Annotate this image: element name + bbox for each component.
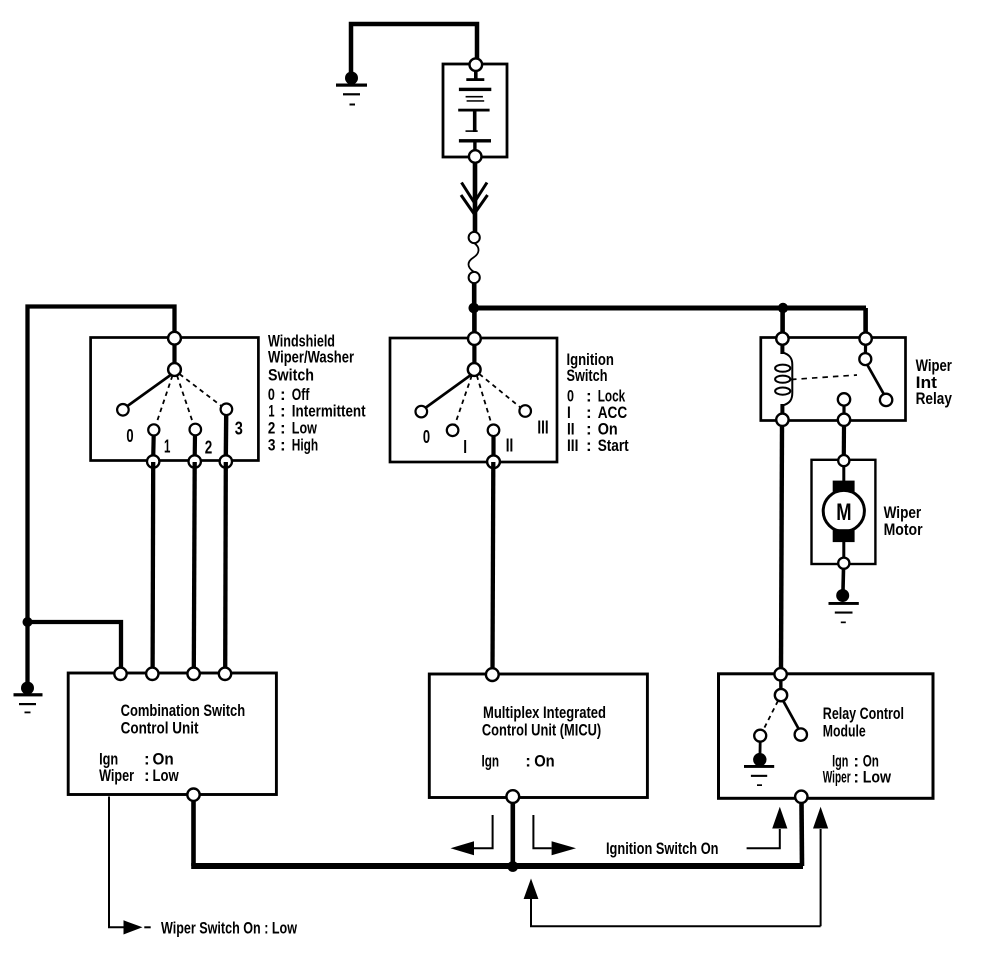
- S1 stem to pivot: [172, 344, 176, 364]
- U3 title: [823, 704, 904, 741]
- S1 blade to contact 0: [126, 374, 172, 407]
- connector circle lower: [469, 272, 480, 283]
- combination switch control unit U1 box: [68, 673, 276, 795]
- svg-text:II: II: [506, 434, 514, 455]
- arrowhead wiper-low right: [124, 920, 143, 934]
- node B junction dot at relay branch: [778, 303, 788, 313]
- S1 stem contact1 to pin: [151, 435, 156, 458]
- arrow into U3 left: [747, 807, 788, 848]
- wire K1 to relay control module: [781, 426, 782, 671]
- wire junction C to control unit pin 1: [26, 622, 122, 670]
- U3 stem to pivot: [779, 680, 783, 690]
- S2 pin II: [487, 455, 500, 468]
- battery B1 box: [443, 64, 507, 157]
- svg-text:Start: Start: [598, 436, 629, 455]
- node C junction dot left: [23, 617, 33, 627]
- ground G2 left: [14, 682, 43, 714]
- S2 legend III Start: [567, 436, 629, 455]
- K1 side text: [916, 356, 953, 408]
- S2 legend I ACC: [567, 403, 627, 422]
- S2 side text title: [567, 350, 614, 385]
- S1 pin 1: [147, 455, 159, 467]
- svg-text:Wiper/Washer: Wiper/Washer: [268, 348, 354, 367]
- multiplex integrated control unit U2 box: [429, 674, 647, 798]
- wire main bus to right: [474, 306, 866, 311]
- wire U1 bottom to bus: [191, 801, 196, 866]
- U3 pin bottom: [795, 791, 807, 803]
- battery terminal top: [470, 58, 483, 71]
- svg-text::: :: [525, 752, 531, 771]
- S2 legend 0 Lock: [567, 386, 626, 405]
- U3 state Ign On: [832, 752, 879, 771]
- wire U2 bottom to bus: [510, 803, 515, 866]
- svg-text:Relay Control: Relay Control: [823, 704, 904, 723]
- ground G3 motor: [829, 589, 859, 623]
- K1 coil: [775, 353, 792, 406]
- K1 switch stem: [864, 344, 867, 354]
- U2 title: [482, 703, 606, 739]
- S2 pivot: [468, 363, 481, 376]
- S1 pin 2: [189, 455, 201, 467]
- double chevron arrow on supply wire: [461, 183, 488, 215]
- K1 terminal top left: [776, 332, 788, 344]
- wire bottom return path: [531, 898, 821, 927]
- S2 dashed blade to contact III: [479, 374, 520, 408]
- S2 dashed blade to contact I: [455, 376, 472, 426]
- M1 motor circle: [823, 490, 864, 531]
- wire S2 pin to MICU: [490, 462, 495, 671]
- S1 stem contact2 to pin: [193, 435, 198, 458]
- K1 pin bottom left: [776, 414, 788, 426]
- K1 coil stem top: [780, 344, 784, 354]
- wire bottom bus: [191, 863, 803, 869]
- svg-text:3: 3: [235, 417, 243, 438]
- U1 state Ign On: [99, 749, 174, 768]
- svg-text:Combination Switch: Combination Switch: [121, 701, 246, 720]
- wire top bus from ground to battery: [351, 24, 477, 73]
- S1 contact 0: [117, 404, 129, 416]
- S1 contact 1: [148, 424, 159, 435]
- arrowhead tail dash: [144, 926, 150, 928]
- ground G1 top-left: [336, 72, 367, 106]
- wire bus down to ignition switch: [472, 308, 477, 334]
- wire U1 wiper-low tap: [109, 797, 132, 928]
- S1 dashed blade to contact 1: [156, 376, 173, 425]
- S1 pivot: [168, 363, 181, 376]
- svg-text::: :: [586, 436, 592, 455]
- U1 pin bottom: [187, 789, 199, 801]
- svg-text:Control Unit (MICU): Control Unit (MICU): [482, 720, 601, 739]
- svg-text:Module: Module: [823, 721, 866, 740]
- wire left feed to wiper switch: [28, 307, 175, 621]
- svg-text:0: 0: [126, 425, 133, 446]
- S1 legend 2 Low: [268, 418, 318, 437]
- M1 stem bottom: [842, 542, 845, 558]
- S1 legend 1 Intermittent: [268, 402, 365, 421]
- wire bus up to U3: [799, 803, 804, 866]
- battery internal plates: [458, 69, 491, 152]
- wiper motor M1 box: [812, 460, 876, 564]
- K1 switch blade: [867, 365, 884, 396]
- svg-text:Relay: Relay: [916, 389, 953, 408]
- K1 fixed contact stem: [842, 406, 845, 417]
- arrow into U3 right: [813, 807, 828, 927]
- svg-text:On: On: [534, 752, 555, 771]
- U1 pin 2: [146, 668, 158, 680]
- node A junction dot: [469, 303, 480, 314]
- wire junction C down to ground: [25, 622, 29, 683]
- svg-text:Ignition Switch On: Ignition Switch On: [606, 839, 719, 858]
- S2 contact I: [447, 425, 459, 437]
- S2 stem contact II to pin: [491, 436, 495, 458]
- svg-text:1: 1: [164, 436, 170, 457]
- U3 dashed blade alternate: [764, 701, 779, 730]
- U3 contact ground stem: [759, 742, 762, 754]
- svg-text:Switch: Switch: [268, 366, 314, 385]
- wire S1 pin3 to control unit: [223, 462, 228, 671]
- U2 state Ign On: [482, 752, 555, 771]
- svg-text:Ign: Ign: [482, 752, 500, 771]
- ground G4 inside module: [744, 753, 774, 786]
- S2 legend II On: [567, 420, 618, 439]
- K1 blade end contact: [880, 394, 892, 406]
- U3 blade end contact: [795, 728, 807, 740]
- wire K1 to wiper motor: [842, 426, 846, 456]
- U3 state Wiper Low: [823, 767, 892, 786]
- K1 switch pivot: [859, 353, 871, 365]
- S2 dashed blade to contact II: [477, 376, 492, 426]
- svg-text:Control Unit: Control Unit: [121, 718, 199, 737]
- wiper int relay K1 box: [761, 338, 906, 421]
- svg-text:Wiper Switch On : Low: Wiper Switch On : Low: [161, 918, 298, 937]
- K1 dashed actuator link: [791, 375, 857, 380]
- S1 stem contact3 to pin: [224, 415, 229, 458]
- svg-text::: :: [853, 767, 859, 786]
- svg-text:I: I: [463, 436, 467, 457]
- arrow out right from MICU wire: [533, 815, 576, 855]
- relay control module U3 box: [719, 674, 934, 799]
- wire squiggle between connectors: [469, 243, 479, 272]
- U1 pin 1: [114, 668, 126, 680]
- svg-text:III: III: [537, 417, 548, 438]
- K1 fixed contact: [838, 393, 850, 405]
- M1 brush block top: [833, 481, 855, 494]
- wire bus down to relay coil: [780, 308, 785, 334]
- S2 terminal top: [468, 332, 481, 345]
- U1 pin 3: [187, 668, 199, 680]
- U3 pin top: [774, 668, 786, 680]
- K1 terminal top right: [859, 332, 871, 344]
- S1 contact 2: [190, 424, 202, 436]
- S1 side text title: [268, 331, 354, 384]
- U3 switch blade: [783, 701, 799, 730]
- svg-text:2: 2: [205, 436, 213, 457]
- S1 pin 3: [220, 455, 232, 467]
- S2 blade to contact 0: [425, 375, 472, 409]
- ignition switch S2 box: [390, 338, 557, 462]
- svg-text:Motor: Motor: [884, 520, 923, 539]
- svg-text::: :: [144, 766, 150, 785]
- K1 coil stem bottom: [780, 404, 784, 416]
- S1 dashed blade to contact 2: [177, 376, 194, 425]
- S2 contact III: [519, 405, 531, 417]
- U2 pin bottom: [506, 790, 519, 803]
- S1 legend 3 High: [268, 435, 318, 454]
- U3 switch pivot: [775, 689, 787, 701]
- svg-text:III: III: [567, 436, 578, 455]
- svg-text:3: 3: [268, 435, 276, 454]
- U1 pin 4: [219, 668, 231, 680]
- svg-text:Wiper: Wiper: [99, 766, 134, 785]
- U1 title: [121, 701, 246, 737]
- S2 contact 0: [416, 406, 428, 418]
- M1 brush block bottom: [833, 529, 855, 542]
- svg-text:M: M: [836, 499, 851, 526]
- wire M1 to ground: [841, 569, 845, 590]
- svg-text:Low: Low: [153, 766, 180, 785]
- battery terminal bottom: [469, 150, 482, 163]
- S1 legend 0 Off: [268, 385, 310, 404]
- svg-text:0: 0: [423, 426, 430, 447]
- svg-text:Wiper: Wiper: [823, 767, 851, 786]
- M1 terminal bottom: [838, 558, 849, 569]
- U3 grounded contact: [754, 730, 766, 742]
- M1 side text: [884, 503, 923, 539]
- svg-text::: :: [280, 435, 286, 454]
- svg-text:Switch: Switch: [567, 366, 608, 385]
- svg-text:Low: Low: [863, 767, 892, 786]
- S1 terminal top: [168, 332, 181, 345]
- wire S1 pin2 to control unit: [192, 462, 197, 671]
- arrow out left from MICU wire: [451, 815, 493, 855]
- K1 pin bottom right: [838, 414, 850, 426]
- S2 stem to pivot: [472, 344, 476, 364]
- M1 terminal top: [838, 455, 849, 466]
- M1 stem top: [842, 466, 845, 482]
- S1 dashed blade to contact 3: [180, 374, 223, 407]
- S2 contact II: [488, 425, 500, 437]
- connector circle upper: [469, 232, 480, 243]
- node D junction dot bottom: [507, 861, 518, 872]
- wire bus down to relay switch: [863, 308, 868, 334]
- U2 pin top: [486, 668, 499, 681]
- U1 state Wiper Low: [99, 766, 179, 785]
- arrowhead return path up: [524, 879, 539, 900]
- windshield wiper/washer switch S1 box: [91, 338, 259, 461]
- S1 contact 3: [221, 404, 233, 416]
- wire S1 pin1 to control unit: [150, 462, 155, 671]
- wire battery to junction A: [472, 162, 477, 308]
- svg-text:High: High: [292, 435, 318, 454]
